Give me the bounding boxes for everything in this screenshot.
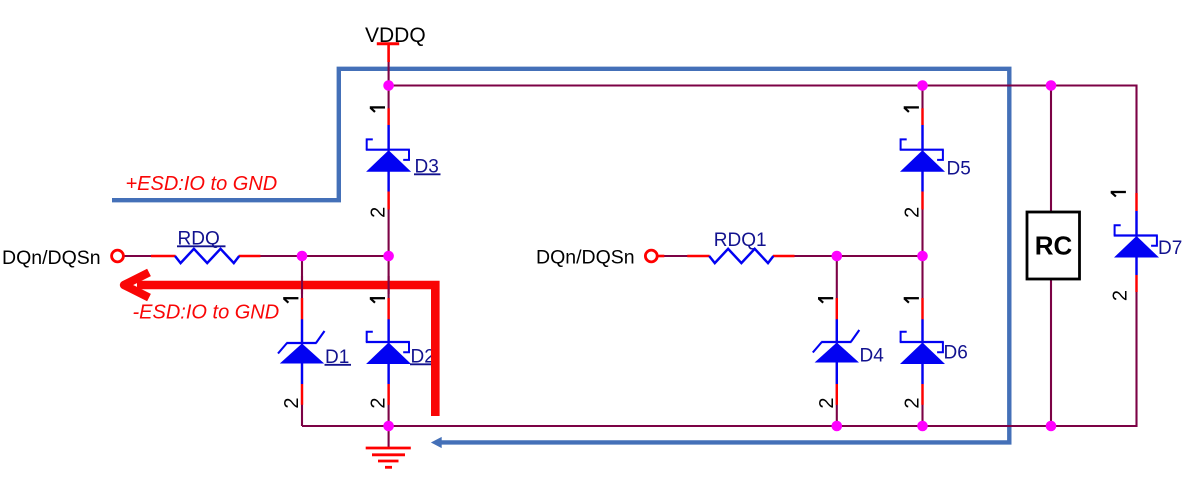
svg-text:2: 2 [281, 397, 303, 408]
svg-text:2: 2 [368, 397, 390, 408]
svg-text:2: 2 [1110, 290, 1132, 301]
svg-text:D7: D7 [1158, 238, 1182, 259]
svg-text:2: 2 [816, 397, 838, 408]
svg-text:DQn/DQSn: DQn/DQSn [2, 247, 101, 269]
svg-text:2: 2 [368, 207, 390, 218]
svg-text:-ESD:IO to GND: -ESD:IO to GND [133, 302, 280, 324]
svg-text:DQn/DQSn: DQn/DQSn [536, 247, 635, 269]
svg-text:D4: D4 [860, 346, 885, 367]
svg-text:2: 2 [902, 207, 924, 218]
svg-text:RC: RC [1035, 230, 1073, 260]
svg-text:D5: D5 [947, 159, 971, 180]
svg-text:2: 2 [902, 397, 924, 408]
svg-text:VDDQ: VDDQ [365, 24, 426, 47]
svg-text:+ESD:IO to GND: +ESD:IO to GND [126, 173, 278, 195]
svg-text:RDQ1: RDQ1 [714, 230, 767, 251]
svg-text:D6: D6 [944, 343, 968, 364]
